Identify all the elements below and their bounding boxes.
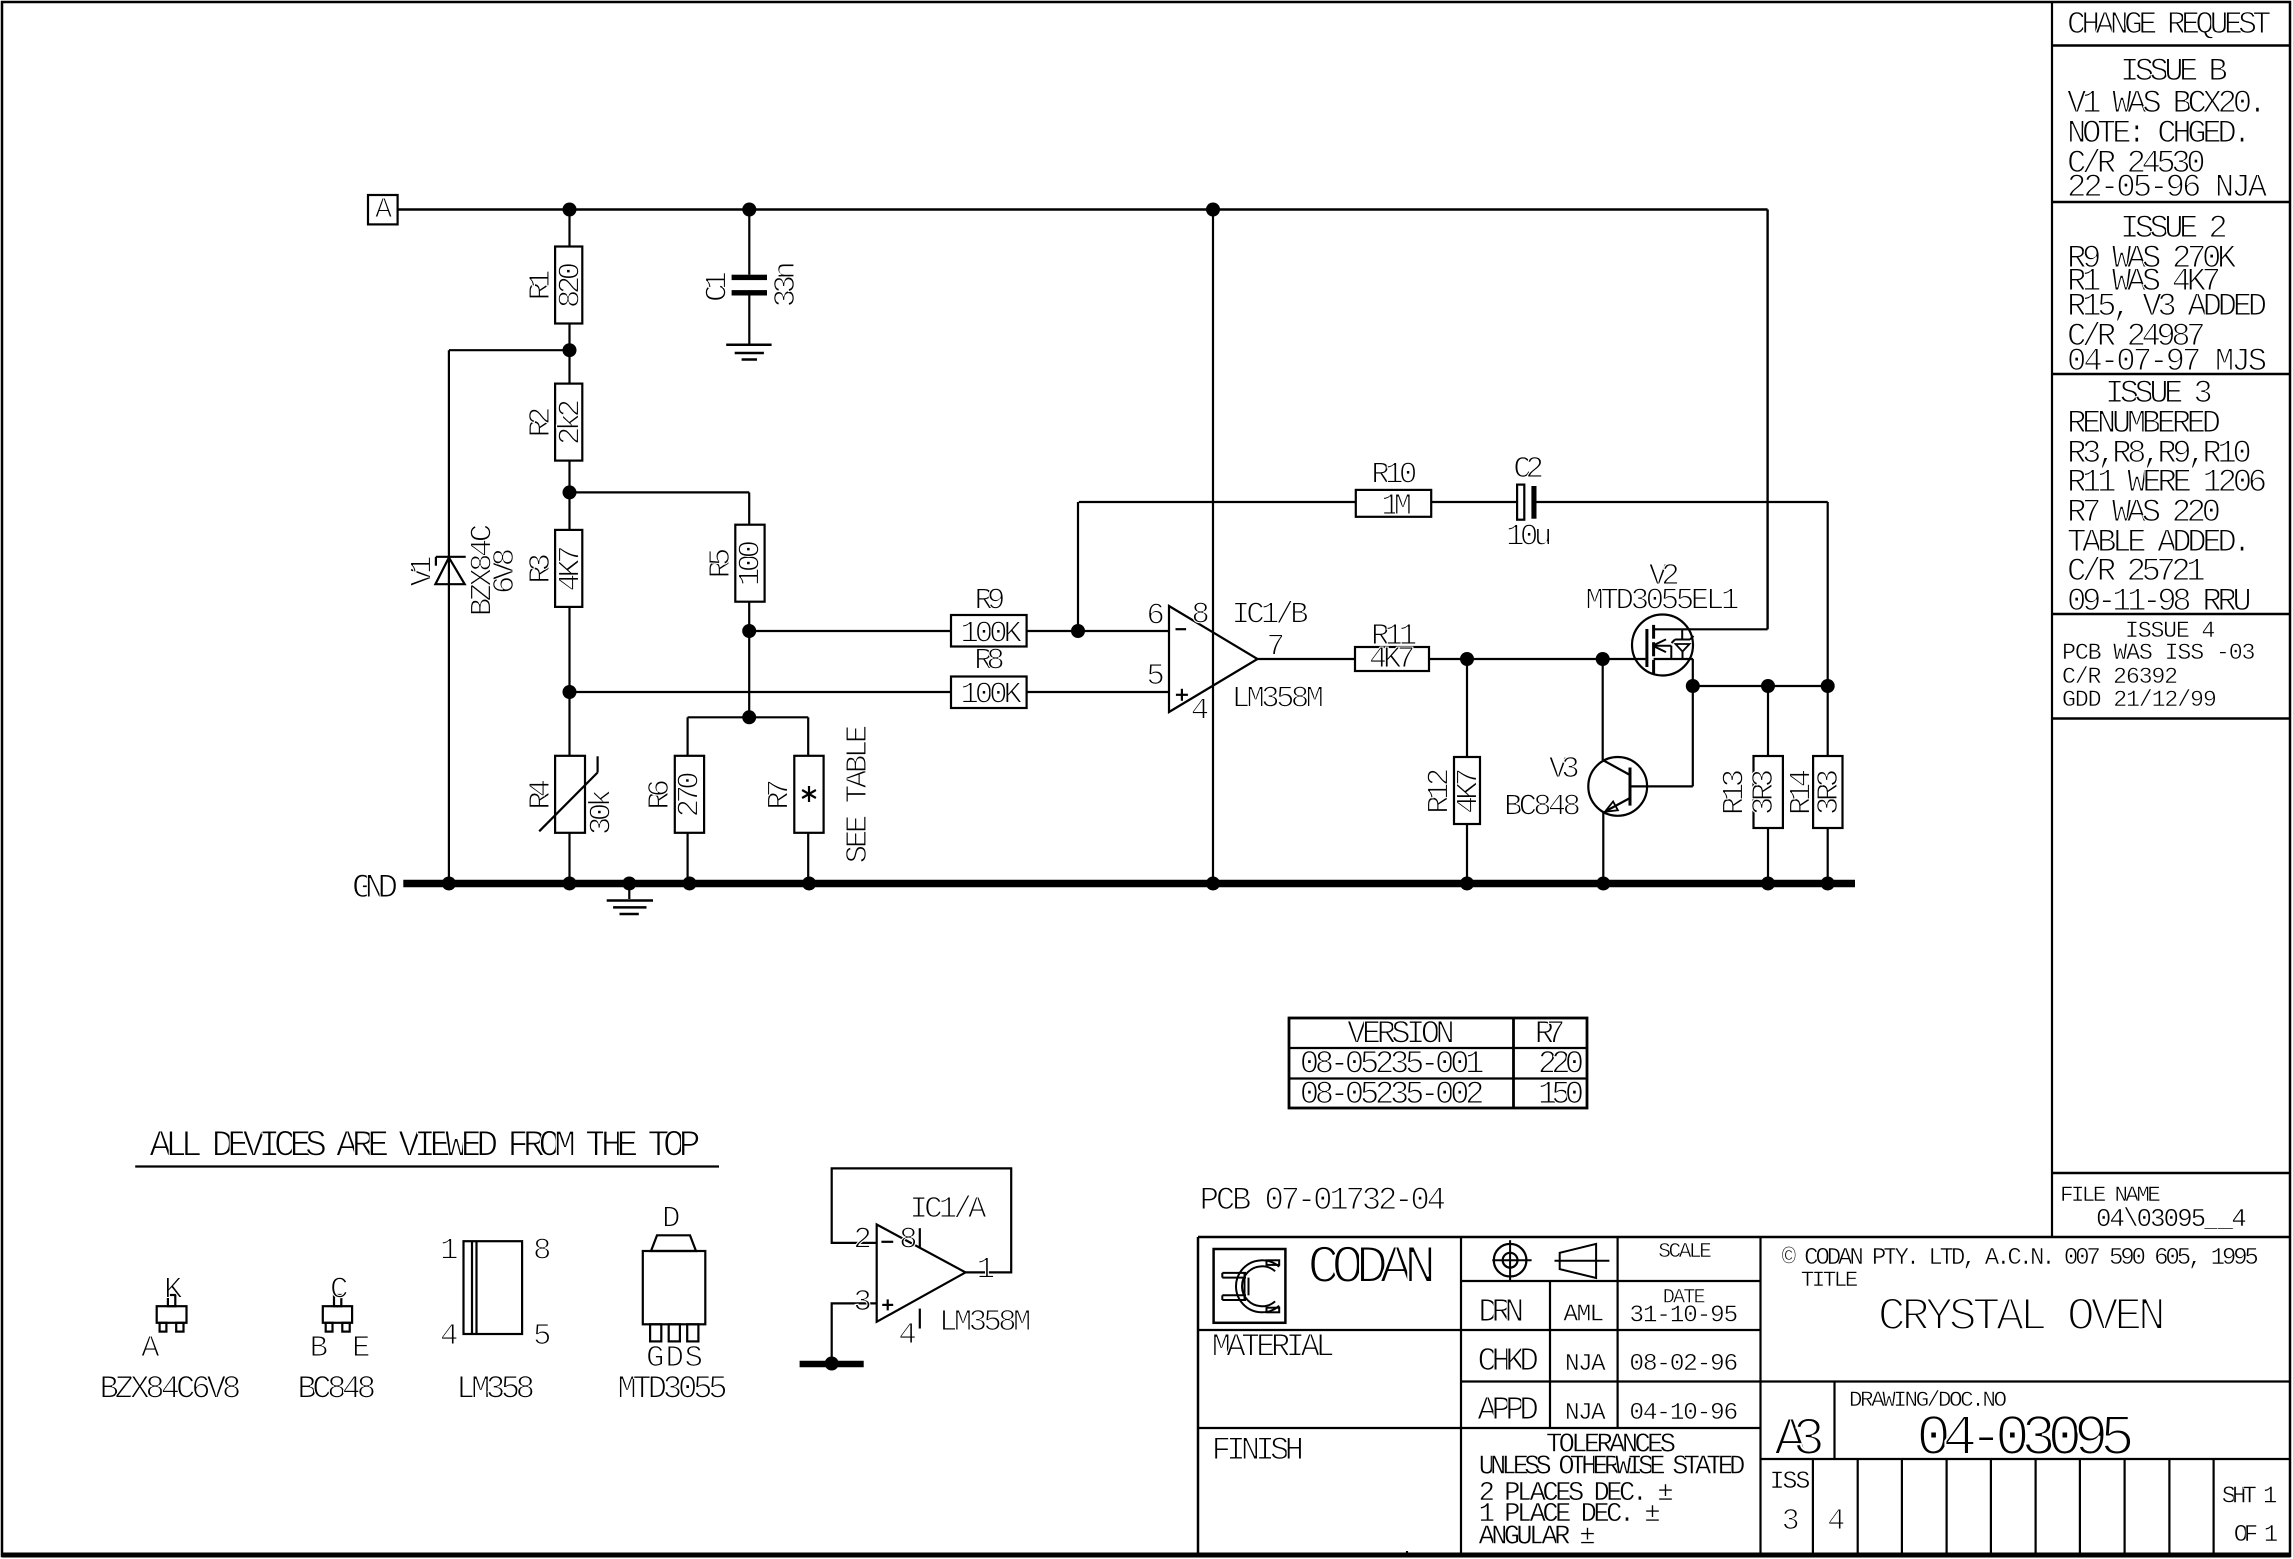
svg-text:09-11-98 RRU: 09-11-98 RRU — [2067, 583, 2252, 620]
svg-text:BC848: BC848 — [1504, 789, 1581, 824]
svg-text:PCB 07-01732-04: PCB 07-01732-04 — [1200, 1182, 1446, 1219]
svg-text:R10: R10 — [1371, 458, 1417, 493]
svg-text:C: C — [330, 1272, 348, 1307]
svg-text:R4: R4 — [524, 779, 559, 810]
svg-text:SEE TABLE: SEE TABLE — [841, 725, 876, 864]
svg-text:AML: AML — [1563, 1301, 1604, 1328]
svg-text:CRYSTAL OVEN: CRYSTAL OVEN — [1878, 1290, 2166, 1343]
svg-text:3R3: 3R3 — [1747, 769, 1782, 815]
svg-text:4: 4 — [1827, 1505, 1845, 1539]
svg-text:CODAN: CODAN — [1307, 1238, 1436, 1299]
svg-text:SCALE: SCALE — [1658, 1240, 1712, 1264]
svg-text:NJA: NJA — [1565, 1400, 1606, 1427]
svg-text:V3: V3 — [1549, 752, 1580, 787]
svg-text:SHT 1: SHT 1 — [2222, 1484, 2278, 1511]
svg-text:6: 6 — [1146, 598, 1164, 633]
svg-text:4: 4 — [440, 1319, 458, 1354]
svg-text:D: D — [662, 1202, 680, 1237]
svg-text:B: B — [310, 1331, 328, 1366]
svg-text:150: 150 — [1538, 1076, 1584, 1113]
svg-text:100: 100 — [734, 540, 769, 586]
svg-text:C2: C2 — [1513, 452, 1544, 487]
svg-text:TITLE: TITLE — [1801, 1267, 1859, 1293]
svg-text:820: 820 — [554, 262, 589, 308]
svg-text:GND: GND — [352, 869, 398, 908]
svg-text:A: A — [375, 193, 393, 226]
svg-text:04-10-96: 04-10-96 — [1629, 1400, 1738, 1427]
svg-text:5: 5 — [1146, 659, 1164, 694]
svg-text:22-05-96 NJA: 22-05-96 NJA — [2067, 169, 2268, 206]
svg-text:E: E — [352, 1331, 370, 1366]
svg-text:100K: 100K — [960, 678, 1022, 713]
svg-text:MATERIAL: MATERIAL — [1212, 1329, 1335, 1366]
svg-text:R8: R8 — [974, 643, 1005, 678]
svg-text:33n: 33n — [769, 261, 804, 307]
svg-text:3: 3 — [853, 1285, 871, 1320]
svg-text:LM358: LM358 — [456, 1371, 535, 1408]
svg-text:A3: A3 — [1774, 1410, 1825, 1471]
svg-text:BC848: BC848 — [297, 1371, 376, 1408]
svg-text:BZX84C6V8: BZX84C6V8 — [100, 1371, 242, 1408]
svg-text:4K7: 4K7 — [554, 545, 589, 591]
svg-text:5: 5 — [533, 1319, 551, 1354]
svg-text:31-10-95: 31-10-95 — [1629, 1303, 1738, 1330]
svg-text:04\03095__4: 04\03095__4 — [2096, 1205, 2247, 1234]
svg-text:OF 1: OF 1 — [2234, 1522, 2278, 1549]
svg-text:ALL DEVICES ARE VIEWED FROM TH: ALL DEVICES ARE VIEWED FROM THE TOP — [149, 1126, 700, 1168]
svg-text:A: A — [141, 1331, 160, 1366]
svg-text:IC1/A: IC1/A — [910, 1192, 988, 1227]
svg-text:C1: C1 — [700, 271, 735, 302]
svg-text:ANGULAR ±: ANGULAR ± — [1479, 1521, 1596, 1552]
svg-text:08-02-96: 08-02-96 — [1629, 1351, 1738, 1378]
svg-text:IC1/B: IC1/B — [1232, 597, 1309, 632]
svg-text:ISS: ISS — [1770, 1468, 1811, 1496]
svg-text:4K7: 4K7 — [1369, 642, 1415, 677]
svg-text:DRN: DRN — [1478, 1293, 1524, 1331]
svg-text:2: 2 — [853, 1222, 871, 1257]
svg-text:3R3: 3R3 — [1812, 769, 1847, 815]
svg-text:4: 4 — [1191, 694, 1209, 729]
svg-text:8: 8 — [1191, 597, 1209, 632]
svg-text:10u: 10u — [1506, 520, 1552, 555]
svg-text:PCB WAS ISS -03: PCB WAS ISS -03 — [2062, 640, 2256, 666]
svg-text:R9: R9 — [975, 584, 1006, 619]
svg-text:8: 8 — [533, 1233, 551, 1268]
svg-text:APPD: APPD — [1477, 1391, 1539, 1429]
svg-text:08-05235-002: 08-05235-002 — [1300, 1076, 1485, 1113]
svg-text:04-03095: 04-03095 — [1916, 1407, 2134, 1472]
svg-text:LM358M: LM358M — [1232, 681, 1324, 716]
svg-text:NJA: NJA — [1565, 1351, 1606, 1378]
svg-text:V1: V1 — [405, 556, 440, 587]
svg-text:MTD3055: MTD3055 — [617, 1371, 727, 1408]
svg-text:CHANGE REQUEST: CHANGE REQUEST — [2067, 8, 2271, 43]
svg-text:GDD 21/12/99: GDD 21/12/99 — [2062, 687, 2217, 713]
svg-text:270: 270 — [673, 771, 708, 817]
svg-text:8: 8 — [899, 1222, 917, 1257]
svg-text:1M: 1M — [1381, 489, 1412, 524]
svg-text:K: K — [164, 1272, 183, 1307]
svg-text:1: 1 — [977, 1253, 995, 1288]
svg-text:LM358M: LM358M — [939, 1305, 1031, 1340]
svg-text:6V8: 6V8 — [488, 548, 523, 594]
svg-text:FINISH: FINISH — [1212, 1432, 1304, 1469]
svg-text:4K7: 4K7 — [1452, 768, 1487, 814]
svg-text:2k2: 2k2 — [554, 399, 589, 445]
svg-text:30k: 30k — [585, 789, 620, 835]
svg-text:MTD3055EL1: MTD3055EL1 — [1585, 584, 1739, 619]
svg-text:CHKD: CHKD — [1477, 1342, 1539, 1380]
svg-text:3: 3 — [1782, 1505, 1800, 1539]
svg-text:4: 4 — [898, 1318, 916, 1353]
svg-text:1: 1 — [440, 1233, 458, 1268]
svg-text:R7: R7 — [763, 779, 798, 810]
